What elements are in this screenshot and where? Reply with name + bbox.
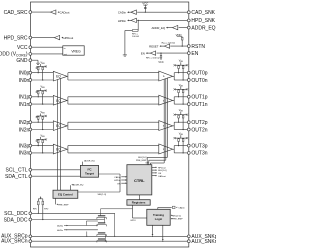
CTRL input HPDin bbox=[121, 179, 127, 181]
svg-text:ADDR_EQ: ADDR_EQ bbox=[151, 26, 165, 30]
svg-text:OUT2n: OUT2n bbox=[191, 127, 207, 133]
output driver channel 2 bbox=[159, 121, 173, 131]
wire SDA_CTL bbox=[32, 175, 81, 177]
net label ADDR_EQ on I2C Target bbox=[82, 162, 84, 166]
wire driver output split channel 0 bbox=[173, 73, 175, 80]
wire SCL_CTL bbox=[32, 169, 81, 171]
svg-text:HPDout: HPDout bbox=[158, 166, 166, 169]
EQ stage amplifier channel 1 bbox=[53, 95, 67, 105]
buffer CADin receiver bbox=[131, 10, 136, 14]
svg-text:SDA_DDC: SDA_DDC bbox=[4, 217, 28, 223]
wire AUX p bbox=[32, 235, 188, 237]
svg-text:PRE_EMP: PRE_EMP bbox=[172, 219, 183, 221]
switch interconnect wires bbox=[86, 220, 98, 222]
svg-text:IN3n: IN3n bbox=[19, 151, 30, 157]
wire IN3n to EQ bbox=[32, 152, 54, 154]
svg-text:SEL[1:0]: SEL[1:0] bbox=[158, 170, 167, 172]
wire SCL_DDC bbox=[32, 212, 115, 214]
wire OUT1n bbox=[174, 103, 187, 105]
svg-text:CAD_SRC: CAD_SRC bbox=[4, 10, 28, 16]
Registers block bbox=[127, 200, 150, 206]
svg-text:OUT1n: OUT1n bbox=[191, 102, 207, 108]
termination resistor to OUT1p bbox=[178, 88, 180, 91]
termination resistor to OUT3n bbox=[182, 137, 184, 140]
CTRL block bbox=[127, 165, 152, 195]
CTRL output HPDout bbox=[152, 166, 156, 168]
svg-text:ADDR_EQ: ADDR_EQ bbox=[84, 159, 95, 162]
wire EQ output split channel 1 bbox=[67, 97, 69, 104]
wire HPD_SRC to HPDout buffer bbox=[32, 37, 55, 39]
svg-text:PRE_EMP: PRE_EMP bbox=[136, 160, 147, 162]
pin AUX_SNKp bbox=[187, 235, 190, 238]
driver control bus line OE bbox=[163, 79, 165, 163]
net label ADDR_EQ bbox=[167, 27, 172, 29]
VCC pull-up on EN (drawn below) bbox=[160, 53, 161, 54]
EQ stage amplifier channel 0 bbox=[53, 71, 67, 81]
wire AUX n bbox=[32, 240, 188, 242]
pass switch AUXn bbox=[98, 238, 105, 240]
svg-text:ADDR_EQ: ADDR_EQ bbox=[191, 25, 215, 31]
wire RSTN bbox=[170, 45, 187, 47]
svg-text:IN2n: IN2n bbox=[19, 127, 30, 133]
svg-text:SEL[1:0]: SEL[1:0] bbox=[98, 194, 107, 196]
svg-text:IN1n: IN1n bbox=[19, 102, 30, 108]
pin OUT2n bbox=[187, 128, 190, 131]
wire CAD_SRC to CADout buffer bbox=[32, 11, 51, 13]
svg-text:VREG: VREG bbox=[71, 49, 81, 53]
wire IN0n to EQ bbox=[32, 79, 54, 81]
wire HPD_SNK bbox=[137, 19, 187, 21]
net label PRE_EMP below EQ Control bbox=[55, 198, 57, 204]
wire IN3p to EQ bbox=[32, 145, 54, 147]
svg-text:AUXp: AUXp bbox=[57, 225, 63, 228]
svg-text:Registers: Registers bbox=[132, 201, 146, 205]
pass switch AUXp bbox=[98, 232, 105, 234]
I2C Target block bbox=[80, 165, 98, 177]
svg-text:EN: EN bbox=[191, 51, 198, 57]
svg-text:CAD_SNK: CAD_SNK bbox=[191, 10, 215, 16]
svg-text:SEL[1:0]: SEL[1:0] bbox=[138, 157, 147, 159]
chip boundary bbox=[31, 2, 189, 247]
net label PRE_EMP to Training Logic bbox=[171, 218, 172, 219]
CTRL output CADout bbox=[152, 175, 156, 177]
EQ stage amplifier channel 3 bbox=[53, 144, 67, 154]
svg-text:IN0n: IN0n bbox=[19, 78, 30, 84]
svg-text:100 kΩ: 100 kΩ bbox=[132, 36, 139, 38]
wire EQ output split channel 3 bbox=[67, 146, 69, 153]
pin OUT1p bbox=[187, 95, 190, 98]
svg-text:HPD_SRC: HPD_SRC bbox=[4, 35, 28, 41]
CTRL input EN bbox=[121, 182, 127, 184]
termination resistor to IN1p bbox=[37, 90, 39, 93]
termination resistor to IN1n bbox=[42, 90, 44, 93]
net label CADin bbox=[128, 11, 131, 13]
buffer HPDin receiver bbox=[131, 18, 136, 22]
wire EN bbox=[157, 52, 188, 54]
EQ control bus lines bbox=[57, 79, 59, 190]
buffer CADout driver bbox=[51, 10, 56, 14]
wire GND stub bbox=[32, 59, 38, 61]
svg-text:CADin: CADin bbox=[114, 176, 121, 179]
buffer ADDR_EQ receiver bbox=[172, 25, 177, 29]
net label CADout bbox=[58, 11, 60, 13]
svg-text:OUT1p: OUT1p bbox=[191, 95, 207, 101]
pin ADDR_EQ bbox=[187, 26, 190, 29]
ground symbol bbox=[36, 62, 40, 64]
pull-up resistor RPU on SDA_DDC bbox=[42, 199, 44, 201]
driver control bus line PRE_EMP bbox=[165, 78, 167, 160]
wire EQ output split channel 0 bbox=[67, 73, 69, 80]
wire Training Logic to AUX n bbox=[162, 225, 164, 239]
switch gate control wire bbox=[100, 209, 102, 216]
wire pair to output driver channel 2 bbox=[68, 121, 159, 123]
wire pair to output driver channel 3 bbox=[68, 145, 159, 147]
svg-text:EN: EN bbox=[118, 183, 121, 185]
svg-text:VCC: VCC bbox=[158, 61, 163, 64]
svg-text:VDD: VDD bbox=[176, 33, 182, 37]
svg-text:AUX_SRCn: AUX_SRCn bbox=[1, 238, 28, 244]
net label EN bbox=[147, 52, 151, 54]
svg-text:ADDR_EQ: ADDR_EQ bbox=[73, 184, 84, 187]
wire driver output split channel 3 bbox=[173, 146, 175, 153]
wire CAD_SNK bbox=[137, 11, 187, 13]
wire IN1p to EQ bbox=[32, 96, 54, 98]
pass switch SDA_DDC to AUX bbox=[98, 222, 105, 224]
output driver channel 0 bbox=[159, 71, 173, 81]
svg-text:IN3p: IN3p bbox=[19, 143, 30, 149]
termination resistor to IN2p bbox=[37, 115, 39, 118]
termination resistor to IN3p bbox=[37, 138, 39, 141]
termination resistor to OUT1n bbox=[182, 88, 184, 91]
wire OUT3n bbox=[174, 152, 187, 154]
wire OUT2n bbox=[174, 129, 187, 131]
VDD arrow for DDC pull-ups bbox=[40, 196, 42, 197]
pin HPD_SNK bbox=[187, 19, 190, 22]
pin OUT3n bbox=[187, 152, 190, 155]
net label HPDin bbox=[128, 19, 131, 21]
net label RESET bbox=[161, 45, 165, 47]
svg-text:SEL[1:0]: SEL[1:0] bbox=[172, 215, 181, 217]
svg-text:AUX_SNKn: AUX_SNKn bbox=[191, 239, 216, 245]
wire Registers to Training Logic bbox=[132, 205, 134, 218]
svg-text:EN: EN bbox=[141, 51, 145, 55]
wire ADDR_EQ bbox=[179, 27, 188, 29]
termination resistor to OUT2p bbox=[178, 114, 180, 117]
svg-text:SCL_DDC: SCL_DDC bbox=[4, 211, 28, 217]
wire VCC to VREG in bbox=[32, 46, 63, 48]
svg-text:OE: OE bbox=[158, 173, 162, 175]
pin OUT1n bbox=[187, 103, 190, 106]
pin OUT0p bbox=[187, 71, 190, 74]
pin OUT0n bbox=[187, 79, 190, 82]
output driver channel 1 bbox=[159, 95, 173, 105]
CTRL output OE bbox=[152, 172, 156, 174]
wire Training Logic CADin tap bbox=[157, 207, 159, 209]
CTRL output SEL bbox=[152, 169, 156, 171]
net label HPDout bbox=[61, 37, 63, 39]
svg-text:HPD_SNK: HPD_SNK bbox=[191, 18, 215, 24]
pull-down resistor RPD on HPD_SNK bbox=[138, 20, 139, 21]
wire IN2p to EQ bbox=[32, 121, 54, 123]
svg-text:GND: GND bbox=[16, 58, 28, 64]
svg-text:CADin: CADin bbox=[118, 11, 127, 15]
ground for RPD bbox=[123, 54, 127, 56]
svg-text:OUT0p: OUT0p bbox=[191, 71, 207, 77]
termination resistor to OUT0n bbox=[182, 64, 184, 67]
pull-up resistor RPU on SCL_DDC bbox=[37, 199, 39, 201]
EQ Control block bbox=[53, 190, 78, 198]
buffer HPDout driver bbox=[54, 35, 59, 39]
pin OUT3p bbox=[187, 144, 190, 147]
svg-text:PRE_EMP: PRE_EMP bbox=[58, 205, 69, 207]
svg-text:CADout: CADout bbox=[60, 11, 70, 15]
buffer RESET receiver bbox=[164, 44, 169, 48]
wire driver output split channel 2 bbox=[173, 122, 175, 129]
pin CAD_SNK bbox=[187, 11, 190, 14]
output driver channel 3 bbox=[159, 144, 173, 154]
driver control bus line SEL bbox=[166, 78, 168, 158]
wire pair to output driver channel 1 bbox=[68, 96, 159, 98]
resistor RPD 100k bbox=[132, 30, 138, 32]
svg-text:out: out bbox=[64, 53, 67, 56]
buffer EN receiver bbox=[150, 51, 155, 55]
svg-text:CADout: CADout bbox=[158, 175, 166, 178]
svg-text:VCC: VCC bbox=[17, 45, 28, 51]
CTRL input CADin bbox=[121, 176, 127, 178]
svg-text:GPIO: GPIO bbox=[130, 220, 136, 222]
svg-text:HPDin: HPDin bbox=[118, 19, 127, 23]
wire IN0p to EQ bbox=[32, 72, 54, 74]
wire EQ output split channel 2 bbox=[67, 122, 69, 129]
svg-text:RSTN: RSTN bbox=[191, 44, 205, 50]
EQ stage amplifier channel 2 bbox=[53, 121, 67, 131]
svg-text:OUT2p: OUT2p bbox=[191, 120, 207, 126]
svg-text:OUT3p: OUT3p bbox=[191, 143, 207, 149]
svg-text:Logic: Logic bbox=[155, 217, 163, 221]
wire Training Logic to AUX p bbox=[152, 225, 154, 234]
pin AUX_SNKn bbox=[187, 240, 190, 243]
svg-text:HPDout: HPDout bbox=[63, 36, 73, 40]
wire OUT0n bbox=[174, 79, 187, 81]
pass switch SCL_DDC to AUX bbox=[98, 215, 105, 217]
svg-text:SDA_CTL: SDA_CTL bbox=[5, 174, 28, 180]
termination resistor to IN0p bbox=[37, 66, 39, 69]
termination resistor to IN3n bbox=[42, 138, 44, 141]
svg-text:AUXn: AUXn bbox=[57, 229, 63, 232]
wire OUT0p bbox=[174, 72, 187, 74]
termination resistor to IN2n bbox=[42, 115, 44, 118]
wire OUT1p bbox=[174, 96, 187, 98]
wire IN1n to EQ bbox=[32, 103, 54, 105]
svg-text:VDDD (VCORE): VDDD (VCORE) bbox=[0, 52, 28, 58]
wire CTRL to Registers bbox=[138, 195, 140, 200]
wire OUT2p bbox=[174, 121, 187, 123]
wire VDDD to VREG out bbox=[32, 53, 63, 55]
regulator VREG bbox=[63, 46, 84, 55]
pin OUT2p bbox=[187, 121, 190, 124]
termination resistor to OUT0p bbox=[178, 64, 180, 67]
wire SDA_DDC bbox=[32, 219, 105, 221]
svg-text:OUT3n: OUT3n bbox=[191, 151, 207, 157]
net label ADDR_EQ on EQ Control bbox=[69, 185, 71, 190]
termination resistor to OUT2n bbox=[182, 114, 184, 117]
pin RSTN bbox=[187, 45, 190, 48]
Training Logic block bbox=[147, 209, 170, 225]
svg-text:IN2p: IN2p bbox=[19, 120, 30, 126]
wire OUT3p bbox=[174, 145, 187, 147]
termination resistor to OUT3p bbox=[178, 137, 180, 140]
svg-text:HPDin: HPDin bbox=[114, 180, 121, 182]
svg-text:EQ: EQ bbox=[56, 75, 61, 79]
pin EN bbox=[187, 52, 190, 55]
wire pair to output driver channel 0 bbox=[68, 72, 159, 74]
svg-text:IN0p: IN0p bbox=[19, 71, 30, 77]
wire I2C Target to EQ Control bbox=[99, 173, 121, 175]
svg-text:RESET: RESET bbox=[149, 44, 159, 48]
svg-text:SCL_CTL: SCL_CTL bbox=[6, 168, 28, 174]
svg-text:EQ Control: EQ Control bbox=[58, 192, 73, 196]
wire driver output split channel 1 bbox=[173, 97, 175, 104]
svg-text:»: » bbox=[163, 75, 165, 79]
svg-text:IN1p: IN1p bbox=[19, 95, 30, 101]
svg-text:OUT0n: OUT0n bbox=[191, 78, 207, 84]
termination resistor to IN0n bbox=[42, 66, 44, 69]
svg-text:Target: Target bbox=[85, 172, 94, 176]
svg-text:CADin: CADin bbox=[178, 206, 185, 209]
wire IN2n to EQ bbox=[32, 129, 54, 131]
net label SEL to Training Logic bbox=[171, 215, 172, 216]
svg-text:CTRL: CTRL bbox=[134, 178, 145, 183]
svg-text:VCC: VCC bbox=[142, 1, 148, 5]
